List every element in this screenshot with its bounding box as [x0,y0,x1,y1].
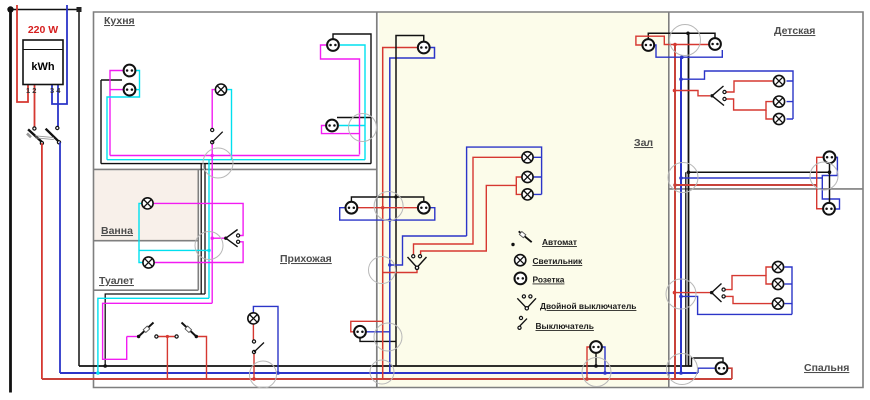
svg-text:1 2: 1 2 [26,86,36,95]
svg-text:Светильник: Светильник [533,256,584,266]
svg-text:Ванна: Ванна [101,225,133,237]
svg-text:Выключатель: Выключатель [536,321,594,331]
svg-text:Зал: Зал [634,137,653,149]
svg-text:kWh: kWh [31,61,55,73]
svg-text:Туалет: Туалет [99,275,134,287]
svg-text:220 W: 220 W [28,24,58,36]
svg-text:Прихожая: Прихожая [280,253,332,265]
svg-text:Автомат: Автомат [542,237,577,247]
svg-text:Детская: Детская [774,25,815,37]
svg-text:3 4: 3 4 [50,86,61,95]
svg-text:Спальня: Спальня [804,362,849,374]
svg-text:Двойной выключатель: Двойной выключатель [540,301,636,311]
svg-text:Кухня: Кухня [104,15,135,27]
svg-text:Розетка: Розетка [533,275,565,285]
